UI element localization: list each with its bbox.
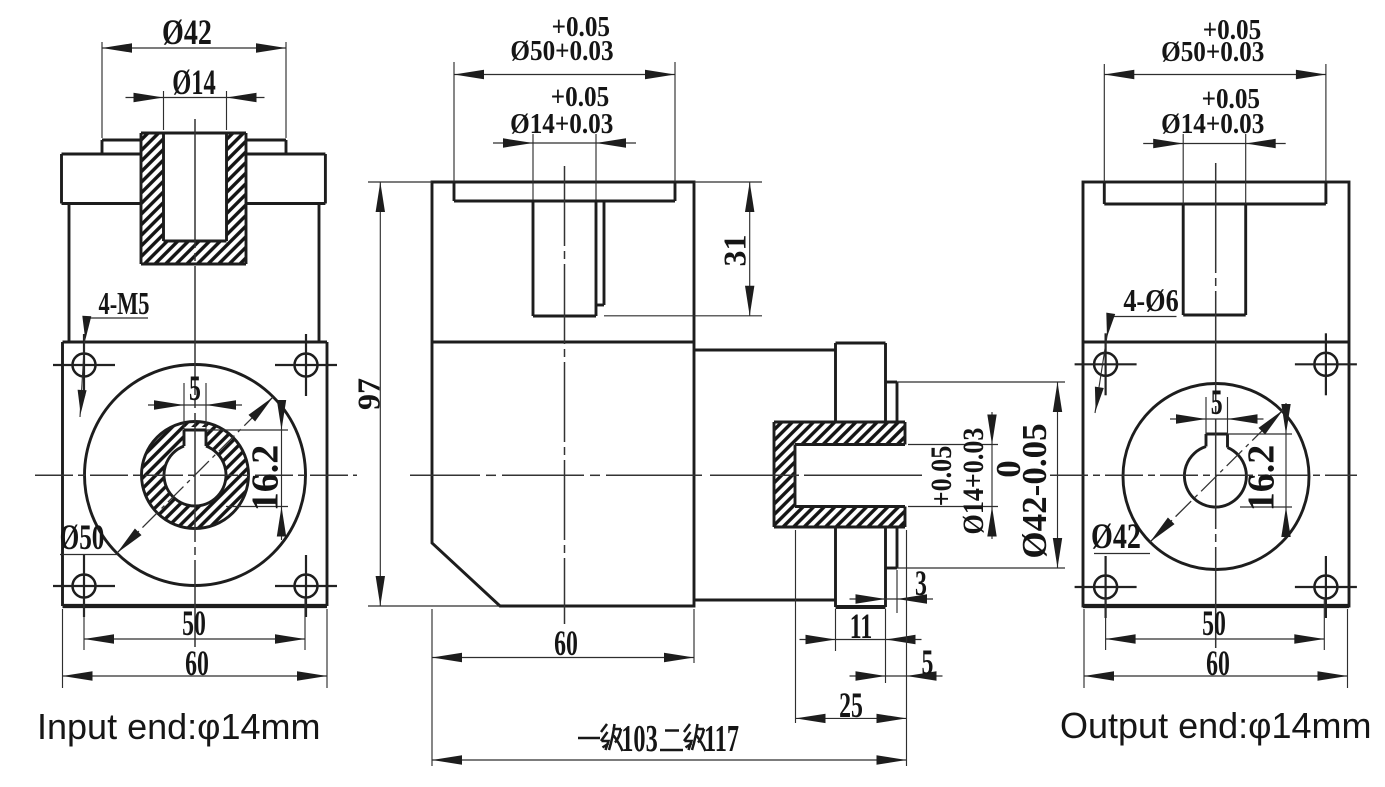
svg-text:Ø50+0.03: Ø50+0.03 bbox=[510, 35, 613, 67]
text yi-ji 103 er-ji 117 bbox=[432, 759, 907, 761]
dimension Ø42 top bbox=[101, 42, 103, 138]
output sleeve hatched section bbox=[774, 422, 905, 527]
Ø50 leader diagonal bbox=[117, 397, 273, 553]
svg-text:Ø14+0.03: Ø14+0.03 bbox=[957, 428, 990, 535]
output boss Ø42 side bbox=[886, 381, 898, 384]
svg-text:Ø42: Ø42 bbox=[1091, 516, 1141, 556]
svg-text:4-Ø6: 4-Ø6 bbox=[1123, 284, 1178, 319]
top recess bbox=[453, 182, 456, 201]
svg-text:60: 60 bbox=[185, 643, 209, 683]
right bore slot bbox=[1182, 204, 1185, 315]
square flange bbox=[63, 341, 328, 344]
adapter section bbox=[62, 153, 142, 156]
right bolt holes bbox=[1094, 353, 1117, 376]
svg-text:50: 50 bbox=[1202, 603, 1226, 643]
svg-text:5: 5 bbox=[922, 642, 934, 682]
svg-text:50: 50 bbox=[182, 603, 206, 643]
hub hatched ring bbox=[142, 422, 249, 529]
svg-text:16.2: 16.2 bbox=[245, 445, 287, 512]
svg-text:+0.05: +0.05 bbox=[925, 446, 958, 507]
bolt holes bbox=[73, 354, 96, 377]
svg-text:5: 5 bbox=[1211, 382, 1223, 422]
svg-text:Ø14+0.03: Ø14+0.03 bbox=[510, 108, 613, 140]
dim 31 bbox=[694, 181, 762, 183]
vertical dim Ø14 at output shaft bbox=[908, 444, 998, 446]
svg-text:Ø50: Ø50 bbox=[60, 517, 105, 558]
bore circle with keyway bbox=[164, 446, 226, 506]
svg-text:60: 60 bbox=[1206, 643, 1230, 683]
right body outline bbox=[1083, 182, 1349, 606]
dim Ø50 +0.05/+0.03 (middle top) bbox=[453, 62, 455, 182]
right centerlines bbox=[1050, 474, 1357, 476]
pilot circle bbox=[85, 365, 306, 586]
dim 60 (middle bottom) bbox=[431, 609, 433, 766]
svg-text:Ø42-0.05: Ø42-0.05 bbox=[1015, 423, 1054, 558]
Ø42 leader diagonal bbox=[1150, 410, 1283, 542]
svg-text:60: 60 bbox=[554, 623, 578, 663]
svg-text:Ø42: Ø42 bbox=[162, 12, 212, 52]
dim 97 bbox=[368, 181, 432, 183]
svg-text:25: 25 bbox=[839, 685, 863, 725]
svg-text:Output end:φ14mm: Output end:φ14mm bbox=[1060, 705, 1372, 746]
mid body section bbox=[68, 204, 71, 343]
dim Ø14 +0.05/+0.03 (middle top) bbox=[532, 134, 534, 200]
dim 5 (output) bbox=[906, 530, 908, 766]
keyway depth dim 16.2 (left) bbox=[206, 429, 288, 431]
svg-text:4-M5: 4-M5 bbox=[99, 285, 150, 321]
left view centerlines bbox=[35, 474, 357, 476]
dim 50 (right bottom) bbox=[1105, 598, 1107, 650]
middle view: side section bbox=[432, 182, 694, 606]
svg-text:16.2: 16.2 bbox=[1241, 445, 1283, 512]
keyway width dim 5 (right) bbox=[1205, 397, 1207, 434]
middle centerlines bbox=[410, 474, 480, 476]
svg-text:Ø14+0.03: Ø14+0.03 bbox=[1161, 108, 1264, 140]
input sleeve outline bbox=[141, 132, 246, 135]
dimension Ø14 top bbox=[163, 91, 165, 130]
svg-text:5: 5 bbox=[189, 368, 201, 408]
keyway width dim 5 (left) bbox=[183, 383, 185, 430]
dim 3 bbox=[896, 570, 898, 613]
output circle Ø42 bbox=[1123, 384, 1309, 570]
svg-text:117: 117 bbox=[704, 718, 739, 760]
svg-text:Input end:φ14mm: Input end:φ14mm bbox=[37, 706, 321, 747]
dim 11 bbox=[835, 609, 837, 651]
svg-text:31: 31 bbox=[717, 235, 753, 267]
svg-text:103: 103 bbox=[621, 718, 657, 760]
left view: input end elevation bbox=[62, 133, 328, 606]
vertical dim Ø42 at output boss bbox=[897, 381, 1065, 383]
svg-text:3: 3 bbox=[915, 563, 927, 603]
output flange side bbox=[834, 343, 837, 422]
output bore circle with keyway bbox=[1184, 447, 1246, 508]
input bore side view bbox=[532, 201, 535, 316]
dim Ø50 +0.05/+0.03 (right top) bbox=[1103, 64, 1105, 182]
dim 60 (left bottom) bbox=[62, 609, 64, 688]
svg-text:Ø50+0.03: Ø50+0.03 bbox=[1161, 36, 1264, 68]
output sleeve outline bbox=[774, 421, 905, 424]
svg-text:11: 11 bbox=[850, 606, 872, 646]
right recess bbox=[1103, 182, 1106, 204]
svg-text:97: 97 bbox=[351, 378, 387, 410]
main body outline bbox=[432, 182, 694, 606]
svg-text:Ø14: Ø14 bbox=[172, 62, 216, 102]
keyway depth dim 16.2 (right) bbox=[1228, 433, 1293, 435]
dim 60 (right bottom) bbox=[1083, 609, 1085, 688]
input sleeve hatched section bbox=[141, 133, 246, 264]
input boss bbox=[102, 139, 141, 142]
hub circle bbox=[142, 422, 249, 529]
output housing bbox=[694, 349, 836, 352]
dim 25 bbox=[795, 530, 797, 723]
dim Ø14 +0.05/+0.03 (right top) bbox=[1182, 134, 1184, 204]
dim 50 (left bottom) bbox=[83, 598, 85, 650]
right view: output end elevation bbox=[1083, 182, 1349, 606]
